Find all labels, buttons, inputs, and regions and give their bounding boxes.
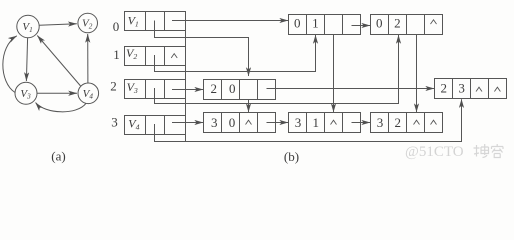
svg-text:V3: V3 xyxy=(127,80,138,95)
svg-text:V4: V4 xyxy=(128,117,139,132)
edge V1->V2 xyxy=(39,24,77,26)
pointer V3.firstout -> arc(2,0) xyxy=(172,89,203,91)
svg-text:2: 2 xyxy=(395,115,402,130)
edge V3->V4 xyxy=(37,92,77,94)
null symbol in arc(3,1) hlink cell xyxy=(331,120,337,124)
vertex node box V3 (row 2) xyxy=(125,80,186,99)
svg-text:1: 1 xyxy=(312,15,319,30)
pointer V4.firstout -> arc(3,0) xyxy=(172,122,203,124)
vertex node box V1 (row 0) xyxy=(125,12,186,31)
pointer V1.firstin -> arc(2,0) xyxy=(155,21,249,77)
svg-text:2: 2 xyxy=(211,81,218,96)
null symbol in arc(2,3) hlink cell xyxy=(476,87,482,91)
svg-text:V1: V1 xyxy=(22,21,32,34)
svg-text:V3: V3 xyxy=(20,88,31,101)
svg-text:0: 0 xyxy=(229,115,236,130)
svg-text:2: 2 xyxy=(394,15,401,30)
svg-text:V2: V2 xyxy=(126,46,137,61)
edge V4->V1 xyxy=(37,36,80,87)
pointer arc(3,1).tlink -> arc(3,2) xyxy=(352,122,371,124)
null symbol in arc(3,2) tlink cell xyxy=(431,120,437,124)
null symbol in arc(3,0) hlink cell xyxy=(246,120,252,124)
arc node box (0,2) xyxy=(371,15,443,35)
null symbol in V2.firstout cell xyxy=(171,54,177,58)
svg-text:0: 0 xyxy=(229,81,236,96)
pointer V1.firstout -> arc(0,1) xyxy=(172,20,288,22)
svg-text:2: 2 xyxy=(441,81,448,96)
pointer arc(0,1).tlink -> arc(0,2) xyxy=(352,25,371,27)
pointer arc(3,0).tlink -> arc(3,1) xyxy=(267,122,289,124)
svg-text:V1: V1 xyxy=(128,13,139,28)
pointer arc(0,2).hlink -> arc(3,2) xyxy=(416,35,418,113)
svg-text:3: 3 xyxy=(295,115,302,130)
pointer V3.firstin -> arc(0,2) xyxy=(155,35,399,104)
arc node box (2,3) xyxy=(435,79,507,99)
svg-text:1: 1 xyxy=(113,47,120,62)
edge V4->V3 curved xyxy=(36,103,87,112)
pointer V4.firstin -> arc(2,3) xyxy=(155,99,462,141)
vertex node box V4 (row 3) xyxy=(125,116,186,135)
pointer arc(2,0).tlink -> arc(2,3) xyxy=(267,88,435,90)
watermark glyph ke xyxy=(492,144,504,158)
vertex circle V4 xyxy=(78,83,99,104)
arc node box (3,0) xyxy=(204,113,276,133)
arc node box (3,1) xyxy=(289,113,361,133)
watermark glyph bo xyxy=(474,144,489,158)
svg-text:V2: V2 xyxy=(82,18,93,31)
vertex circle V2 xyxy=(78,13,98,33)
svg-text:3: 3 xyxy=(211,115,218,130)
pointer arc(0,1).hlink -> arc(3,1) xyxy=(333,35,335,113)
arc node box (0,1) xyxy=(289,15,361,35)
vertex circle V3 xyxy=(15,82,37,104)
null symbol in arc(2,3) tlink cell xyxy=(495,87,501,91)
svg-text:0: 0 xyxy=(113,19,120,34)
svg-text:0: 0 xyxy=(376,15,383,30)
vertex node box V2 (row 1) xyxy=(125,47,186,66)
svg-text:1: 1 xyxy=(313,115,320,130)
vertex circle V1 xyxy=(17,15,39,37)
edge V3->V1 curved xyxy=(3,36,17,93)
svg-text:3: 3 xyxy=(458,81,465,96)
edge V4->V2 xyxy=(87,34,89,83)
pointer V2.firstin -> arc(0,1) xyxy=(155,35,316,72)
null symbol in arc(0,2) tlink cell xyxy=(431,20,437,24)
svg-text:@51CTO: @51CTO xyxy=(405,144,464,160)
pointer arc(2,0).hlink -> arc(3,0) xyxy=(248,100,250,113)
svg-text:(b): (b) xyxy=(284,149,299,164)
vertex table right border vertical xyxy=(185,12,187,142)
arc node box (2,0) xyxy=(204,80,276,100)
svg-text:2: 2 xyxy=(110,78,117,93)
svg-text:3: 3 xyxy=(111,115,118,130)
null symbol in arc(3,2) hlink cell xyxy=(414,120,420,124)
svg-text:V4: V4 xyxy=(83,88,94,101)
svg-text:0: 0 xyxy=(294,15,301,30)
svg-text:(a): (a) xyxy=(51,149,65,164)
svg-text:3: 3 xyxy=(377,115,384,130)
arc node box (3,2) xyxy=(371,113,443,133)
edge V1->V3 xyxy=(26,38,27,81)
